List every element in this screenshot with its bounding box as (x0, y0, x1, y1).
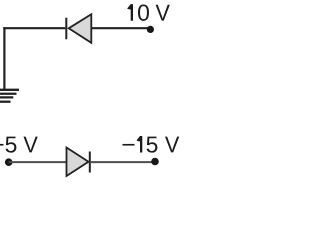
label "10 V" (127, 4, 169, 21)
diode D1 cathode bar (65, 18, 67, 40)
node: 10 V terminal dot (147, 26, 154, 33)
node: -5 V terminal dot (5, 158, 13, 166)
node: -15 V terminal dot (151, 158, 159, 166)
label "-5 V" (0, 137, 38, 153)
diode D2 triangle (points right, anode left) (67, 148, 89, 177)
ground (0, 90, 19, 102)
wire: left vertical down to ground (3, 27, 5, 90)
wire: -5 V terminal to diode D2 anode (9, 161, 67, 163)
diode D1 triangle (points left, anode right) (69, 14, 92, 43)
label "-15 V" (123, 136, 180, 153)
wire: diode D2 cathode to -15 V terminal (90, 161, 153, 163)
wire: diode D1 anode to 10 V terminal (91, 27, 149, 29)
wire: top horizontal from corner to diode D1 cathode (3, 27, 65, 29)
diode D2 cathode bar (89, 152, 91, 173)
